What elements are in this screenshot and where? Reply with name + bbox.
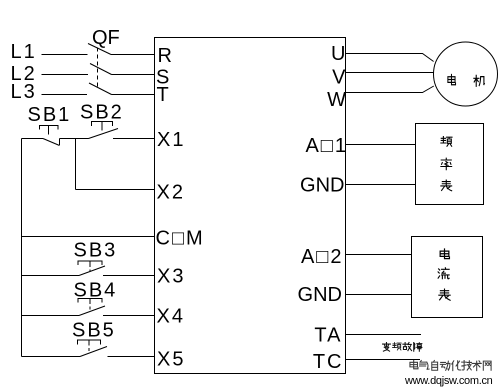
motor label 机 <box>474 75 485 86</box>
svg-text:GND: GND <box>300 175 344 197</box>
wire L2 to QF <box>42 74 89 76</box>
svg-text:SB4: SB4 <box>74 280 118 302</box>
fault label 频 <box>393 343 402 351</box>
frequency meter box <box>416 124 484 205</box>
svg-text:X1: X1 <box>157 129 185 151</box>
left bus wire <box>21 139 23 357</box>
svg-text:U: U <box>331 43 345 65</box>
inverter box U1 <box>155 38 346 374</box>
svg-text:GND: GND <box>298 284 342 306</box>
watermark 术 <box>472 361 481 371</box>
fault label 变 <box>383 343 391 352</box>
frequency meter label 率 <box>441 158 452 170</box>
wire TC <box>346 359 421 361</box>
pushbutton SB2 actuator <box>92 122 113 131</box>
svg-text:www.dqjsw.com.cn: www.dqjsw.com.cn <box>404 375 493 387</box>
pushbutton SB4 NO blade <box>79 306 105 316</box>
wire QF to R <box>111 54 155 56</box>
wire bus to SB3 <box>22 275 80 277</box>
fault label 障 <box>414 343 422 352</box>
current meter label 流 <box>438 268 449 279</box>
watermark 化 <box>452 361 461 371</box>
current meter label 电 <box>440 249 449 259</box>
frequency meter label 表 <box>441 180 452 191</box>
wire SB1 to SB2 <box>60 138 89 140</box>
pushbutton SB1 NC blade <box>43 139 60 146</box>
pushbutton SB3 actuator dashed stem <box>89 264 91 272</box>
breaker QF linkage dashed <box>97 48 99 89</box>
wire W to motor <box>346 86 434 93</box>
wire junction down to X2 <box>75 139 77 190</box>
watermark 自 <box>432 361 438 371</box>
pushbutton SB1 right post <box>59 139 61 146</box>
svg-text:X4: X4 <box>157 306 185 328</box>
pushbutton SB4 actuator <box>78 299 102 303</box>
svg-text:L1: L1 <box>11 41 37 63</box>
svg-text:A□2: A□2 <box>301 246 344 268</box>
wire bus to COM <box>22 236 155 238</box>
wire GND to current meter <box>346 294 412 296</box>
fault label 故 <box>403 343 412 351</box>
svg-text:SB5: SB5 <box>72 320 116 342</box>
wire SB3 to X3 <box>103 275 155 277</box>
wire to X2 <box>76 189 155 191</box>
pushbutton SB4 actuator dashed stem <box>89 301 91 311</box>
watermark 动 <box>440 361 450 370</box>
pushbutton SB1 actuator <box>40 126 59 135</box>
breaker QF pole 3 blade <box>89 83 112 95</box>
pushbutton SB5 actuator dashed stem <box>88 343 90 352</box>
current meter label 表 <box>439 289 450 300</box>
wire AO1 to frequency meter <box>346 144 416 146</box>
svg-text:L3: L3 <box>11 81 37 103</box>
svg-text:QF: QF <box>92 27 120 49</box>
svg-text:X5: X5 <box>157 349 185 371</box>
wire SB2 to X1 <box>113 138 155 140</box>
wire SB4 to X4 <box>103 315 155 317</box>
svg-text:X3: X3 <box>157 266 185 288</box>
wire bus to SB4 <box>22 315 80 317</box>
frequency meter label 频 <box>441 137 452 147</box>
svg-text:V: V <box>332 67 346 89</box>
current meter box <box>412 237 483 318</box>
motor M circle <box>434 42 498 106</box>
watermark 电 <box>410 361 418 369</box>
wire L3 to QF <box>42 94 88 96</box>
svg-text:C□M: C□M <box>156 228 205 250</box>
wire GND to frequency meter <box>346 184 416 186</box>
wire TA <box>346 334 422 336</box>
breaker QF pole 2 blade <box>90 64 112 75</box>
pushbutton SB3 NO blade <box>79 266 105 276</box>
svg-text:TA: TA <box>314 325 342 347</box>
wire bus to SB1 <box>22 138 44 140</box>
svg-text:SB1: SB1 <box>28 104 72 126</box>
svg-text:TC: TC <box>313 351 344 373</box>
motor label 电 <box>448 75 456 85</box>
wire QF to S <box>112 74 155 76</box>
wire V to motor <box>346 72 434 74</box>
svg-text:R: R <box>158 45 172 67</box>
pushbutton SB5 actuator <box>78 340 101 345</box>
svg-text:T: T <box>157 84 169 106</box>
watermark 网 <box>483 361 491 370</box>
watermark 技 <box>462 361 472 371</box>
svg-text:SB3: SB3 <box>74 240 118 262</box>
svg-text:X2: X2 <box>157 182 185 204</box>
wire U to motor <box>346 54 434 62</box>
svg-text:W: W <box>327 89 346 111</box>
pushbutton SB5 NO blade <box>80 347 107 357</box>
svg-text:SB2: SB2 <box>80 102 124 124</box>
wire L1 to QF <box>42 54 88 56</box>
wire QF to T <box>112 94 155 96</box>
svg-text:A□1: A□1 <box>305 135 348 157</box>
wire bus to SB5 <box>22 356 81 358</box>
watermark 气 <box>420 361 430 370</box>
wire SB5 to X5 <box>108 356 155 358</box>
pushbutton SB2 NO blade <box>89 129 119 139</box>
breaker QF pole 1 blade <box>88 44 111 55</box>
wire AO2 to current meter <box>346 254 412 256</box>
pushbutton SB3 actuator <box>78 261 102 265</box>
